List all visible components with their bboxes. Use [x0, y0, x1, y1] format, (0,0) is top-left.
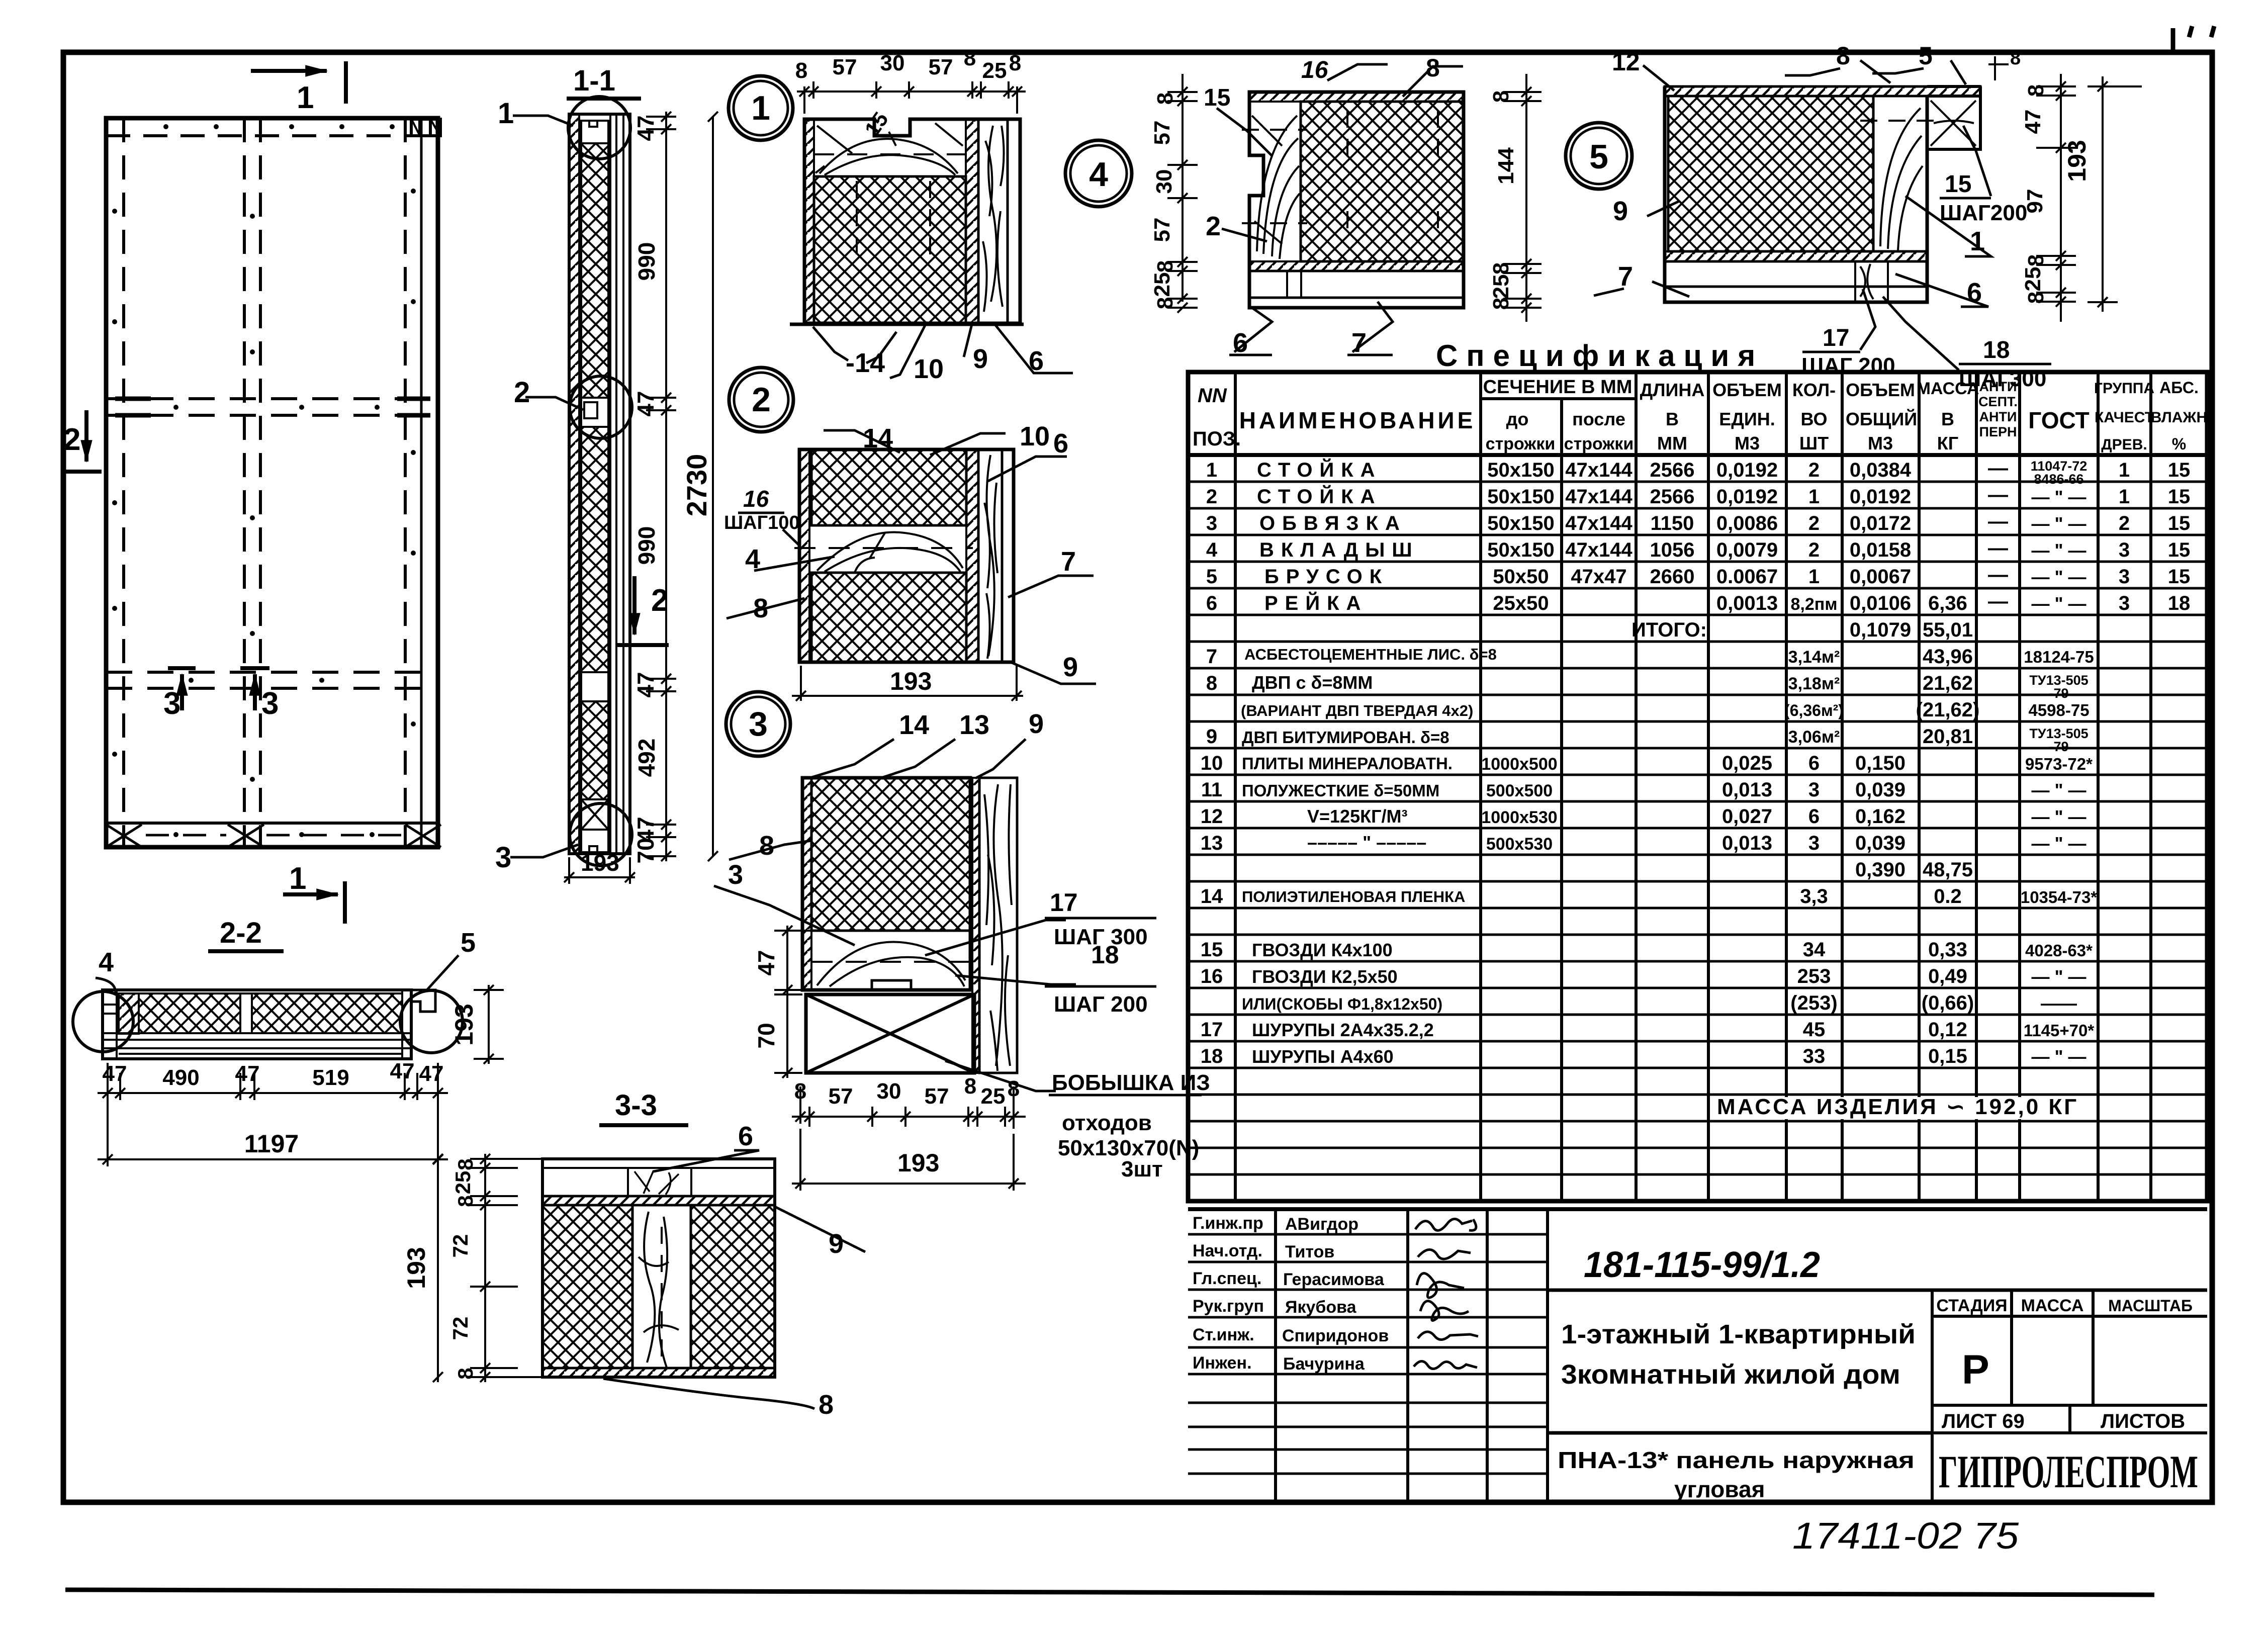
- svg-text:-79: -79: [2049, 686, 2068, 701]
- svg-text:ГИПРОЛЕСПРОМ: ГИПРОЛЕСПРОМ: [1939, 1446, 2198, 1497]
- svg-text:ПОЛУЖЕСТКИЕ δ=50ММ: ПОЛУЖЕСТКИЕ δ=50ММ: [1242, 781, 1439, 800]
- svg-text:ЕДИН.: ЕДИН.: [1719, 409, 1775, 429]
- svg-text:50х150: 50х150: [1487, 539, 1554, 561]
- svg-text:0,1079: 0,1079: [1850, 619, 1911, 641]
- svg-text:АВигдор: АВигдор: [1285, 1215, 1358, 1234]
- svg-text:16: 16: [1301, 57, 1328, 83]
- detail3 block outline: [802, 778, 970, 990]
- svg-text:97: 97: [2023, 189, 2047, 214]
- svg-text:ВКЛАДЫШ: ВКЛАДЫШ: [1259, 539, 1419, 561]
- svg-text:%: %: [2172, 435, 2186, 453]
- insulation strip crosshatch lower: [581, 701, 608, 799]
- svg-text:Титов: Титов: [1285, 1242, 1334, 1261]
- leader 2 detail4: [1222, 229, 1267, 241]
- svg-text:(0,66): (0,66): [1922, 992, 1974, 1014]
- svg-text:18124-75: 18124-75: [2024, 648, 2094, 666]
- svg-text:17: 17: [1201, 1019, 1223, 1041]
- svg-text:70: 70: [753, 1023, 779, 1048]
- detail1 wood grain board: [978, 119, 1008, 323]
- elevation top-right corner stud: [411, 119, 440, 136]
- leader 10: [890, 324, 926, 378]
- svg-text:2-2: 2-2: [220, 917, 262, 949]
- svg-text:3: 3: [1808, 832, 1820, 854]
- svg-text:25: 25: [451, 1171, 475, 1195]
- svg-text:Р: Р: [1962, 1347, 1989, 1393]
- svg-text:0,33: 0,33: [1928, 939, 1967, 961]
- svg-text:30: 30: [877, 1079, 901, 1104]
- svg-text:9: 9: [1613, 196, 1628, 226]
- crosshatch right: [691, 1205, 775, 1368]
- svg-text:МАССА: МАССА: [1917, 379, 1979, 398]
- svg-text:1: 1: [1808, 566, 1820, 588]
- svg-text:57: 57: [833, 55, 857, 79]
- svg-text:1000х530: 1000х530: [1481, 808, 1557, 827]
- detail1 block outline with top notch: [804, 119, 1020, 323]
- svg-text:ЛИСТ 69: ЛИСТ 69: [1942, 1410, 2025, 1432]
- svg-text:8: 8: [1206, 672, 1217, 694]
- svg-text:—: —: [1988, 484, 2008, 506]
- leader 18 shag200 detail3: [955, 975, 1076, 984]
- leader 7 detail2: [1008, 576, 1094, 597]
- svg-text:181-115-99/1.2: 181-115-99/1.2: [1584, 1245, 1820, 1285]
- section 1-1 dim chain: [646, 112, 676, 861]
- detail2 crosshatch upper: [811, 449, 966, 525]
- section mark 2 right: [617, 576, 669, 645]
- crosshatch band right: [252, 993, 402, 1033]
- svg-text:18: 18: [2168, 592, 2191, 614]
- svg-text:34: 34: [1803, 939, 1826, 961]
- svg-text:ПНА-13* панель наружная: ПНА-13* панель наружная: [1558, 1447, 1915, 1473]
- svg-text:3,3: 3,3: [1800, 885, 1828, 908]
- svg-text:1150: 1150: [1651, 512, 1694, 534]
- svg-text:В: В: [1941, 409, 1954, 429]
- svg-text:47: 47: [753, 950, 779, 975]
- svg-text:6: 6: [1206, 592, 1217, 614]
- svg-text:8: 8: [453, 1368, 477, 1379]
- svg-text:8,2пм: 8,2пм: [1791, 595, 1838, 614]
- svg-text:угловая: угловая: [1674, 1476, 1765, 1502]
- svg-text:500х500: 500х500: [1486, 781, 1553, 800]
- svg-text:50х50: 50х50: [1493, 566, 1549, 588]
- svg-text:1000х500: 1000х500: [1481, 755, 1557, 774]
- balloon 3: [726, 692, 790, 756]
- svg-text:47х144: 47х144: [1565, 512, 1632, 534]
- svg-text:6,36: 6,36: [1928, 592, 1967, 614]
- svg-text:ИЛИ(СКОБЫ Ф1,8х12х50): ИЛИ(СКОБЫ Ф1,8х12х50): [1242, 995, 1442, 1013]
- svg-text:8: 8: [964, 1074, 976, 1099]
- svg-text:13: 13: [959, 710, 989, 740]
- detail2 block outline: [799, 449, 1014, 662]
- detail4 block outline with left notch: [1249, 92, 1464, 308]
- svg-text:7: 7: [1351, 328, 1367, 358]
- svg-text:9: 9: [1206, 725, 1217, 748]
- mid stud: [240, 993, 252, 1033]
- svg-text:1: 1: [2119, 486, 2130, 508]
- svg-text:ОБЩИЙ: ОБЩИЙ: [1846, 408, 1917, 429]
- svg-text:1: 1: [289, 861, 306, 896]
- right layer lines: [610, 114, 623, 854]
- svg-text:10354-73*: 10354-73*: [2021, 888, 2097, 906]
- 25 band with bobyshka: [542, 1195, 775, 1198]
- crosshatch left: [542, 1205, 632, 1368]
- section mark 3 arrows on rail 2: [168, 668, 269, 710]
- stud column wood: [632, 1205, 691, 1368]
- svg-text:4: 4: [1206, 539, 1218, 561]
- leader 7 detail5: [1652, 282, 1689, 297]
- inner dashed right stud: [404, 118, 407, 847]
- svg-text:Бачурина: Бачурина: [1283, 1354, 1365, 1374]
- svg-text:6: 6: [738, 1121, 753, 1151]
- svg-text:— " —: — " —: [2031, 567, 2086, 587]
- leader 8 top detail5: [1860, 60, 1890, 83]
- svg-text:НАИМЕНОВАНИЕ: НАИМЕНОВАНИЕ: [1239, 407, 1476, 433]
- svg-text:Спецификация: Спецификация: [1436, 339, 1764, 373]
- inner edge line left: [122, 118, 125, 847]
- group/abs columns: [2119, 459, 2190, 614]
- svg-text:15: 15: [1945, 171, 1971, 198]
- svg-text:(253): (253): [1790, 992, 1837, 1014]
- svg-text:15: 15: [1204, 84, 1230, 111]
- svg-text:193: 193: [2063, 140, 2091, 182]
- bobyshka note leader: [945, 1061, 1056, 1091]
- svg-text:193: 193: [581, 850, 619, 876]
- svg-text:50х150: 50х150: [1487, 459, 1554, 481]
- svg-text:6: 6: [1233, 328, 1248, 358]
- svg-text:3: 3: [2119, 592, 2130, 614]
- title block big texts: [1558, 1245, 2198, 1502]
- leader 9 detail2: [1011, 662, 1096, 684]
- svg-text:70: 70: [632, 838, 659, 863]
- svg-text:СТОЙКА: СТОЙКА: [1257, 458, 1382, 481]
- svg-text:8: 8: [1836, 42, 1850, 70]
- detail3 left plank hatch: [802, 778, 811, 990]
- svg-text:0,0067: 0,0067: [1850, 566, 1911, 588]
- top inner dashed line: [106, 134, 438, 137]
- detail1 right gap strip hatch: [966, 119, 978, 323]
- svg-text:47: 47: [632, 115, 659, 141]
- svg-text:ГРУППА: ГРУППА: [2094, 380, 2154, 397]
- svg-text:2: 2: [752, 381, 771, 419]
- svg-text:72: 72: [448, 1317, 472, 1340]
- bottom sheet lines: [103, 1033, 411, 1054]
- svg-text:— " —: — " —: [2031, 593, 2086, 614]
- svg-text:ДВП БИТУМИРОВАН. δ=8: ДВП БИТУМИРОВАН. δ=8: [1242, 728, 1449, 747]
- svg-text:8: 8: [819, 1390, 834, 1420]
- svg-text:1: 1: [1808, 486, 1820, 508]
- antisept dashes: [1988, 457, 2008, 612]
- svg-text:Ст.инж.: Ст.инж.: [1193, 1325, 1254, 1344]
- svg-text:55,01: 55,01: [1923, 619, 1973, 641]
- svg-text:— " —: — " —: [2031, 780, 2086, 800]
- detail3 193 dim: [792, 1129, 1026, 1191]
- detail3 dim line: [792, 1086, 1026, 1129]
- svg-text:144: 144: [1494, 147, 1518, 185]
- svg-text:М3: М3: [1735, 433, 1760, 453]
- leader 10 detail2: [930, 433, 1006, 455]
- svg-text:3: 3: [749, 705, 768, 743]
- svg-text:— " —: — " —: [2031, 966, 2086, 987]
- 2-2 bar body: [103, 990, 411, 1059]
- leader 4 detail2: [754, 557, 835, 571]
- sheet fold tick top right: [2173, 26, 2214, 53]
- svg-text:50х150: 50х150: [1487, 486, 1554, 508]
- detail1 outer plank: [1008, 119, 1020, 323]
- detail2 wood grain board: [978, 449, 1002, 662]
- svg-text:9: 9: [973, 344, 988, 374]
- svg-text:8: 8: [1153, 93, 1177, 105]
- detail2 mid band vkladysh: [811, 525, 966, 573]
- corner piece right: [411, 990, 435, 1012]
- leader 1: [513, 116, 573, 126]
- detail4 air band: [1249, 271, 1464, 298]
- detail5 193 dim: [2088, 76, 2142, 312]
- svg-text:ШАГ 200: ШАГ 200: [1801, 353, 1895, 378]
- bottom band dashed mid: [146, 834, 402, 837]
- detail5 bottom hatch strip: [1665, 251, 1927, 261]
- svg-text:47х144: 47х144: [1565, 459, 1632, 481]
- svg-text:4: 4: [1089, 155, 1108, 194]
- detail5 air band: [1665, 261, 1927, 287]
- bottom cap block: [581, 830, 608, 852]
- svg-text:0,039: 0,039: [1855, 779, 1906, 801]
- end circles: [73, 991, 133, 1052]
- svg-text:1-этажный 1-квартирный: 1-этажный 1-квартирный: [1561, 1319, 1916, 1349]
- svg-text:1197: 1197: [244, 1130, 299, 1158]
- svg-text:МАСШТАБ: МАСШТАБ: [2108, 1297, 2193, 1315]
- svg-text:2: 2: [651, 583, 668, 618]
- svg-text:25: 25: [1150, 273, 1174, 297]
- leader 12: [1643, 65, 1674, 90]
- svg-text:8486-66: 8486-66: [2034, 472, 2083, 487]
- inner edge line right: [420, 118, 423, 847]
- svg-text:АСБЕСТОЦЕМЕНТНЫЕ ЛИС. δ=8: АСБЕСТОЦЕМЕНТНЫЕ ЛИС. δ=8: [1244, 646, 1497, 663]
- svg-text:5: 5: [461, 928, 476, 958]
- svg-text:5: 5: [1589, 138, 1608, 176]
- svg-text:ПОЗ.: ПОЗ.: [1193, 428, 1241, 450]
- detail4 stud wood arcs: [1300, 102, 1302, 261]
- panel outline: [106, 118, 438, 847]
- detail1 crosshatch insulation: [814, 176, 966, 323]
- detail ellipse middle: [570, 376, 632, 438]
- detail2 right gap strip: [966, 449, 978, 662]
- section body outer: [569, 114, 630, 854]
- svg-text:47х144: 47х144: [1565, 486, 1632, 508]
- leader 9: [964, 324, 972, 357]
- svg-text:ДРЕВ.: ДРЕВ.: [2101, 436, 2147, 453]
- svg-text:0,0106: 0,0106: [1850, 592, 1911, 614]
- svg-text:1145+70*: 1145+70*: [2024, 1021, 2095, 1040]
- svg-text:0,0158: 0,0158: [1850, 539, 1911, 561]
- detail4 crosshatch: [1301, 102, 1464, 261]
- svg-text:33: 33: [1803, 1045, 1826, 1067]
- svg-text:КОЛ-: КОЛ-: [1792, 380, 1836, 400]
- leader 8 detail2: [727, 598, 804, 618]
- overall 2730 dim: [708, 112, 718, 861]
- bottom X block: [581, 799, 608, 830]
- svg-text:3: 3: [495, 841, 511, 874]
- svg-text:3: 3: [163, 686, 180, 721]
- svg-text:ШАГ100: ШАГ100: [724, 512, 800, 533]
- leader 15 detail4: [1217, 108, 1272, 156]
- svg-text:8: 8: [1153, 260, 1177, 273]
- svg-text:15: 15: [2168, 486, 2191, 508]
- svg-text:8: 8: [1489, 298, 1513, 310]
- detail3 bobyshka X box: [806, 994, 974, 1073]
- svg-text:72: 72: [448, 1234, 472, 1258]
- 3-3 dim chains: [470, 1154, 546, 1382]
- svg-text:18: 18: [1983, 337, 2010, 364]
- svg-text:— " —: — " —: [2031, 487, 2086, 507]
- svg-text:21,62: 21,62: [1923, 672, 1973, 694]
- svg-text:16: 16: [743, 486, 769, 512]
- svg-text:(21,62): (21,62): [1916, 699, 1980, 721]
- svg-text:(ВАРИАНТ ДВП ТВЕРДАЯ 4х2): (ВАРИАНТ ДВП ТВЕРДАЯ 4х2): [1241, 702, 1473, 719]
- leader 16 detail4: [1327, 64, 1388, 80]
- 2-2 overall dim 1197: [98, 1100, 448, 1166]
- svg-text:0,025: 0,025: [1722, 752, 1772, 774]
- svg-text:ГВОЗДИ К2,5х50: ГВОЗДИ К2,5х50: [1252, 966, 1398, 987]
- detail2 outer plank: [1002, 449, 1014, 662]
- svg-text:9: 9: [1029, 709, 1044, 739]
- svg-text:8: 8: [753, 593, 768, 623]
- svg-text:17411-02 75: 17411-02 75: [1792, 1515, 2019, 1557]
- svg-text:ШУРУПЫ А4х60: ШУРУПЫ А4х60: [1252, 1046, 1394, 1067]
- svg-text:ШАГ200: ШАГ200: [1940, 201, 2027, 225]
- detail1 top band wood arcs: [814, 175, 966, 178]
- svg-text:45: 45: [1803, 1019, 1826, 1041]
- svg-text:4028-63*: 4028-63*: [2025, 941, 2093, 960]
- svg-text:8: 8: [1009, 51, 1021, 75]
- svg-text:(6,36м²): (6,36м²): [1784, 701, 1844, 719]
- svg-text:2: 2: [1808, 459, 1820, 481]
- svg-text:2: 2: [1206, 486, 1217, 508]
- leader 3 bottom: [510, 845, 578, 857]
- svg-text:990: 990: [633, 242, 660, 281]
- svg-text:6: 6: [1029, 346, 1044, 376]
- svg-text:3: 3: [1808, 779, 1820, 801]
- svg-text:-79: -79: [2049, 739, 2068, 754]
- detail1 dim line top: [797, 81, 1026, 114]
- svg-text:1: 1: [2119, 459, 2130, 481]
- svg-text:——: ——: [2041, 993, 2077, 1014]
- svg-text:7: 7: [1206, 646, 1217, 668]
- svg-text:Нач.отд.: Нач.отд.: [1193, 1241, 1262, 1260]
- svg-text:ПЛИТЫ МИНЕРАЛОВАТН.: ПЛИТЫ МИНЕРАЛОВАТН.: [1242, 754, 1453, 773]
- svg-text:0,013: 0,013: [1722, 779, 1772, 801]
- svg-text:—: —: [1988, 510, 2008, 532]
- svg-text:1: 1: [498, 97, 514, 130]
- top 8 line: [542, 1167, 775, 1169]
- svg-text:отходов: отходов: [1062, 1111, 1152, 1135]
- svg-text:47: 47: [390, 1059, 415, 1083]
- svg-text:— " —: — " —: [2031, 540, 2086, 561]
- detail3 right gap strip: [972, 778, 979, 1073]
- leader 5 top detail5: [1951, 60, 1966, 84]
- svg-text:1: 1: [751, 89, 770, 127]
- detail ellipse top: [568, 97, 630, 159]
- detail4 top band hatch: [1249, 92, 1464, 102]
- 193 dim below 1-1: [564, 857, 635, 884]
- svg-text:7: 7: [1061, 547, 1076, 577]
- detail5 main outline: [1665, 86, 1927, 302]
- svg-text:ВО: ВО: [1800, 409, 1827, 429]
- 8 hatch band (bitum): [542, 1196, 775, 1205]
- svg-text:В: В: [1666, 409, 1679, 429]
- leader 8 detail4: [1403, 66, 1463, 97]
- svg-text:АНТИ: АНТИ: [1979, 409, 2017, 424]
- leader 8 detail3: [729, 841, 811, 860]
- bottom 8 hatch band: [542, 1368, 775, 1377]
- table header text: [1193, 377, 2207, 453]
- svg-text:строжки: строжки: [1564, 434, 1634, 453]
- svg-text:3: 3: [261, 686, 279, 721]
- svg-text:18: 18: [1201, 1045, 1223, 1067]
- svg-text:9573-72*: 9573-72*: [2025, 755, 2093, 773]
- svg-text:2: 2: [514, 376, 530, 409]
- bottom rule line: [65, 1590, 2154, 1595]
- svg-text:3-3: 3-3: [615, 1089, 657, 1122]
- svg-text:25х50: 25х50: [1493, 592, 1549, 614]
- svg-text:1: 1: [297, 80, 314, 115]
- detail2 crosshatch lower: [811, 573, 966, 662]
- svg-text:СЕЧЕНИЕ В ММ: СЕЧЕНИЕ В ММ: [1483, 377, 1632, 398]
- svg-text:8: 8: [1008, 1076, 1020, 1101]
- svg-text:Якубова: Якубова: [1285, 1298, 1357, 1317]
- svg-text:0,0192: 0,0192: [1716, 486, 1778, 508]
- svg-text:ВЛАЖН: ВЛАЖН: [2151, 409, 2207, 426]
- svg-text:ОБЪЕМ: ОБЪЕМ: [1846, 380, 1915, 400]
- detail2 left plank hatch: [799, 449, 809, 662]
- svg-text:6: 6: [1053, 428, 1068, 459]
- leader 6 detail2: [988, 457, 1067, 481]
- signatures squiggles: [1414, 1219, 1478, 1369]
- svg-text:47х144: 47х144: [1565, 539, 1632, 561]
- svg-text:Инжен.: Инжен.: [1193, 1353, 1252, 1373]
- leader 16 shag100 detail2: [783, 529, 799, 546]
- svg-text:ПОЛИЭТИЛЕНОВАЯ ПЛЕНКА: ПОЛИЭТИЛЕНОВАЯ ПЛЕНКА: [1242, 888, 1465, 905]
- left inner edge: [116, 990, 118, 1059]
- svg-text:0,0172: 0,0172: [1850, 512, 1911, 534]
- detail5 corner top edge: [1927, 86, 1980, 96]
- svg-text:— " —: — " —: [2031, 1046, 2086, 1067]
- svg-text:3,14м²: 3,14м²: [1788, 648, 1840, 667]
- svg-text:57: 57: [929, 55, 953, 79]
- bottom X box mid: [228, 825, 264, 847]
- svg-text:— " —: — " —: [2031, 513, 2086, 534]
- svg-text:АБС.: АБС.: [2159, 379, 2199, 397]
- detail5 stud wood grain: [1873, 96, 1927, 251]
- detail5 corner block: [1927, 96, 1980, 149]
- svg-text:МАССА ИЗДЕЛИЯ ∽ 192,0 КГ: МАССА ИЗДЕЛИЯ ∽ 192,0 КГ: [1717, 1095, 2078, 1119]
- small 8 dim top right corner: [1988, 56, 2009, 80]
- svg-text:50х150: 50х150: [1487, 512, 1554, 534]
- svg-text:4: 4: [745, 544, 760, 574]
- svg-text:30: 30: [1152, 169, 1176, 194]
- svg-text:ШТ: ШТ: [1799, 433, 1829, 453]
- svg-text:25: 25: [2021, 267, 2045, 292]
- massa izdeliya row: [1711, 1097, 2097, 1119]
- svg-text:8: 8: [453, 1158, 477, 1170]
- svg-text:1056: 1056: [1650, 539, 1695, 561]
- svg-text:519: 519: [312, 1065, 349, 1090]
- section mark 1 bottom: [283, 881, 345, 924]
- detail4 right dim chain: [1503, 74, 1541, 322]
- svg-text:47: 47: [632, 672, 659, 697]
- svg-text:— " —: — " —: [2031, 806, 2086, 827]
- svg-text:7: 7: [1618, 261, 1633, 292]
- svg-text:17: 17: [1823, 325, 1849, 351]
- detail3 crosshatch: [811, 778, 970, 931]
